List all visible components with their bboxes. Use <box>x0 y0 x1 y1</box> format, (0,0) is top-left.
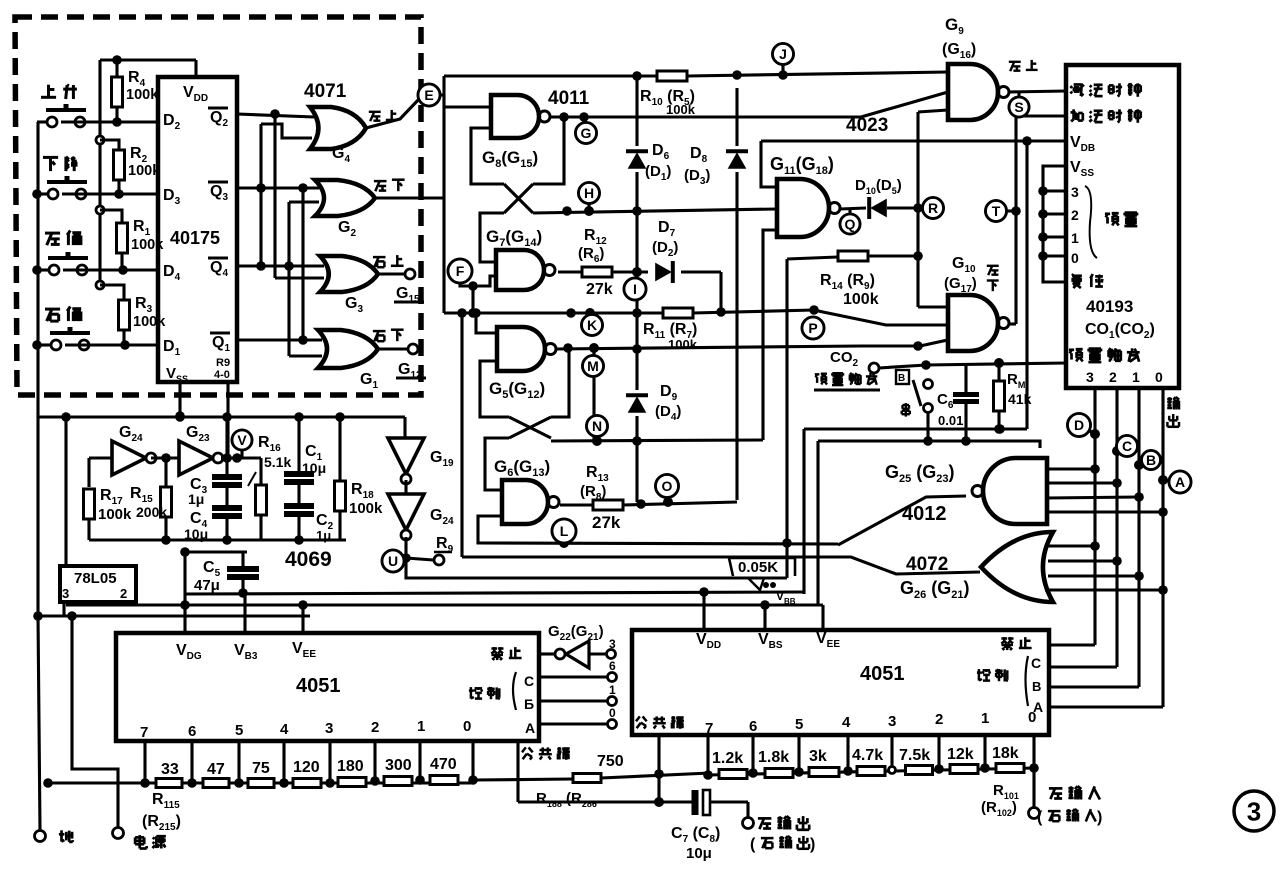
wire G26 in1 <box>1045 541 1100 551</box>
pin1 stub <box>415 741 425 785</box>
terminal 地 <box>35 830 73 842</box>
svg-text:4071: 4071 <box>304 81 347 102</box>
wire 左偏 to D4 <box>32 265 158 275</box>
resistor R13 27k <box>580 464 623 532</box>
wire G26 in2 <box>1048 556 1122 566</box>
wire L row <box>478 538 838 548</box>
wire K from E vertical <box>444 311 462 314</box>
wire D7 to R11 <box>681 272 726 317</box>
bus D <box>1090 389 1100 645</box>
cross wire c <box>289 202 322 356</box>
40193 labels <box>1069 83 1163 385</box>
or-gate G2 <box>315 180 375 239</box>
svg-text:L: L <box>560 523 569 539</box>
svg-text:3: 3 <box>888 713 896 730</box>
left rail to ground <box>38 616 40 830</box>
pin0L stub <box>468 741 478 785</box>
capacitor C2 1u <box>284 485 334 543</box>
wire 下降 to D3 <box>32 189 158 199</box>
svg-text:4051: 4051 <box>860 663 905 685</box>
svg-text:100k: 100k <box>349 500 383 517</box>
node letter overlays <box>232 44 1191 573</box>
nand G8 <box>482 95 550 170</box>
wire G9 out <box>1009 60 1066 92</box>
wire G2 out 左下 <box>374 180 443 198</box>
nand G10 <box>944 255 1009 351</box>
resistor 1.8k <box>758 749 793 778</box>
wire Q2 out <box>237 109 314 119</box>
wire G7 out <box>558 270 583 273</box>
inverter G24b <box>388 494 454 540</box>
resistor R16 5.1k <box>248 434 291 540</box>
middle-left vertical <box>457 308 467 557</box>
switch 右偏 <box>45 307 90 351</box>
pin5R stub <box>794 735 804 777</box>
terminal R9 <box>406 535 454 565</box>
svg-text:U: U <box>388 553 398 569</box>
node Q <box>840 209 860 234</box>
wire G24a in <box>89 458 112 487</box>
svg-text:G: G <box>581 125 592 141</box>
chain wire right <box>708 768 1034 775</box>
rail B drop <box>816 441 819 605</box>
pin6 stub <box>187 741 197 788</box>
pin5 stub <box>234 741 244 788</box>
svg-text:41k: 41k <box>1008 391 1032 407</box>
svg-text:3: 3 <box>325 720 333 737</box>
wire 78L05 in <box>64 417 67 566</box>
svg-text:27k: 27k <box>586 281 613 298</box>
middle box bottom <box>462 555 837 558</box>
4051R control <box>977 655 1163 715</box>
svg-text:120: 120 <box>293 759 320 776</box>
wire G26 in4 <box>1045 585 1168 595</box>
wire CO2 row to 40193 <box>926 358 1066 368</box>
label 4023 <box>846 115 888 136</box>
4051R common pin <box>654 735 664 807</box>
bus C <box>1112 389 1122 667</box>
node G <box>576 117 597 144</box>
svg-text:0.05K: 0.05K <box>738 559 778 576</box>
pin7 stub <box>140 741 150 788</box>
svg-text:100k: 100k <box>126 87 159 103</box>
bus A <box>1158 389 1168 707</box>
label R188 <box>536 790 597 809</box>
svg-text:): ) <box>810 836 815 853</box>
capacitor C6 0.01 <box>937 364 979 446</box>
svg-text:3k: 3k <box>809 748 827 765</box>
resistor R4 100k <box>112 60 160 122</box>
diode D9 line lower <box>635 416 638 502</box>
vdd feed vertical <box>96 60 104 289</box>
pin7R stub <box>703 735 713 780</box>
pin3 stub <box>325 741 335 788</box>
svg-text:47: 47 <box>207 761 225 778</box>
svg-text:B: B <box>1146 452 1156 468</box>
diode D9 <box>626 383 681 423</box>
latch1 loop <box>471 117 564 262</box>
capacitor C5 47u <box>180 547 259 594</box>
svg-text:1: 1 <box>417 718 425 735</box>
wire R14 left <box>787 257 838 578</box>
rail A2 y592 <box>185 587 804 598</box>
svg-text:1μ: 1μ <box>188 491 204 507</box>
switch 下降 <box>43 157 87 199</box>
svg-text:T: T <box>992 203 1001 219</box>
svg-text:R9: R9 <box>216 357 230 369</box>
node D <box>1068 414 1096 437</box>
pin3R stub <box>889 735 896 774</box>
svg-text:300: 300 <box>385 757 412 774</box>
wire G23 out <box>221 453 261 463</box>
wire K to P <box>693 305 819 315</box>
wire G5 in1 <box>471 308 497 333</box>
wire common out <box>518 800 695 803</box>
svg-text:3: 3 <box>1071 184 1079 200</box>
svg-text:4023: 4023 <box>846 115 888 136</box>
svg-text:1: 1 <box>609 683 616 697</box>
pot 0.05K <box>729 558 795 590</box>
wire G24a-G23 <box>151 453 179 463</box>
node M <box>583 353 604 377</box>
wire G6 out <box>560 503 594 506</box>
inverter G24a <box>112 424 156 475</box>
wire K row <box>462 308 663 318</box>
IC U1 40175 box <box>158 77 237 382</box>
pin0R stub <box>1029 735 1039 773</box>
pin4 stub <box>279 741 289 788</box>
rail B2 y605 <box>66 600 823 610</box>
svg-text:6: 6 <box>749 718 757 735</box>
4051R labels <box>636 630 1036 737</box>
svg-text:Б: Б <box>524 696 534 712</box>
capacitor C4 10u <box>184 488 242 542</box>
svg-text:7: 7 <box>140 724 148 741</box>
wire G9G10 vertical <box>913 110 948 307</box>
svg-text:1: 1 <box>1071 230 1079 246</box>
svg-text:3: 3 <box>1247 796 1261 826</box>
40193 vdd wire <box>1027 141 1066 429</box>
4051L labels <box>140 640 570 760</box>
bus B <box>1134 389 1144 687</box>
svg-text:0: 0 <box>1155 369 1163 385</box>
resistor R10 100k <box>640 71 696 117</box>
svg-text:E: E <box>424 87 433 103</box>
wire VDD row <box>761 136 1066 146</box>
node I <box>624 278 646 300</box>
svg-text:7: 7 <box>705 720 713 737</box>
svg-text:H: H <box>584 185 594 201</box>
svg-text:470: 470 <box>430 756 457 773</box>
wire G10 out to 加法时钟 <box>1009 116 1066 324</box>
node L <box>552 519 576 548</box>
inverter G22 <box>548 623 616 668</box>
svg-text:6: 6 <box>609 659 616 673</box>
oscillator bottom wire <box>89 524 346 545</box>
pin4R stub <box>843 735 853 776</box>
4051L supply stubs <box>185 552 303 633</box>
svg-text:4: 4 <box>842 714 851 731</box>
4051R supply stubs <box>704 592 823 630</box>
node R <box>923 198 944 219</box>
svg-text:100k: 100k <box>133 314 166 330</box>
svg-text:33: 33 <box>161 761 179 778</box>
wire Q1 out <box>237 335 322 345</box>
4051L common pin <box>516 741 519 802</box>
wire 右偏 to D1 <box>32 340 158 350</box>
svg-text:0: 0 <box>1071 250 1079 266</box>
node C <box>1117 436 1138 457</box>
svg-text:C: C <box>1122 438 1132 454</box>
nand G9 <box>942 15 1009 120</box>
svg-text:2: 2 <box>1109 369 1117 385</box>
node J <box>773 44 794 80</box>
resistor 300 <box>384 757 412 786</box>
svg-text:40175: 40175 <box>170 228 220 248</box>
wire R14 right <box>868 254 918 257</box>
resistor 1.2k <box>712 750 747 779</box>
resistor R1 100k <box>100 210 164 270</box>
resistor R2 100k <box>100 140 161 194</box>
inverter G19 <box>388 438 454 484</box>
wire G25 in1 <box>1047 464 1100 474</box>
svg-text:4069: 4069 <box>285 548 332 571</box>
wire P diagonal <box>814 310 948 325</box>
resistor R14 100k <box>820 251 879 308</box>
rail A drop <box>802 429 805 594</box>
terminal 电源 <box>72 616 166 849</box>
diode D6 <box>626 142 671 183</box>
40175 labels <box>163 84 230 384</box>
pin2R stub <box>934 735 944 774</box>
svg-text:3: 3 <box>1086 369 1094 385</box>
resistor R3 100k <box>100 285 166 345</box>
node N <box>587 416 608 447</box>
wire N row <box>551 348 763 446</box>
wire 750 right <box>601 773 710 778</box>
nand G5 <box>489 327 556 401</box>
svg-text:N: N <box>592 418 602 434</box>
preset trigger switch <box>902 380 933 417</box>
node H <box>579 183 600 217</box>
svg-text:5.1k: 5.1k <box>264 454 291 470</box>
label VBB small <box>776 589 796 606</box>
4051L control pins <box>469 659 617 736</box>
svg-text:100k: 100k <box>98 506 132 523</box>
wire 78L05 pin2 <box>120 602 122 616</box>
wire G3 out 右上 <box>373 255 424 305</box>
wire VDD top <box>100 55 196 77</box>
latch2 loop <box>480 348 569 490</box>
svg-text:K: K <box>587 317 597 333</box>
svg-text:10μ: 10μ <box>686 845 712 862</box>
svg-text:2: 2 <box>371 719 379 736</box>
node O <box>656 475 679 503</box>
svg-text:4-0: 4-0 <box>214 369 230 381</box>
svg-text:1.8k: 1.8k <box>758 749 789 766</box>
label 4071 <box>304 81 347 102</box>
40193 vss-preset wires <box>1038 166 1066 282</box>
wire G6 in2 loop <box>478 516 502 543</box>
rail U right end <box>0 0 1 1</box>
wire F-K link <box>468 286 478 318</box>
svg-text:S: S <box>1014 99 1023 115</box>
diode D6 line upper <box>635 76 638 146</box>
resistor 3k <box>809 748 839 777</box>
label R115 <box>142 791 181 833</box>
resistor 750 <box>573 753 624 783</box>
wire R12 to D7 <box>612 267 648 277</box>
nand G6 <box>494 457 559 524</box>
wire G26 out <box>837 557 980 574</box>
resistor 180 <box>337 758 366 787</box>
resistor 7.5k <box>899 747 933 775</box>
svg-text:): ) <box>1097 809 1102 826</box>
wire Q4 out <box>237 261 324 271</box>
svg-text:O: O <box>662 478 673 494</box>
page number 3 <box>1234 791 1274 831</box>
resistor R19 41k <box>994 363 1032 434</box>
40175 bottom pins <box>175 382 228 458</box>
wire G19-G24 <box>404 480 407 494</box>
diode D7 <box>652 219 678 283</box>
wire Q3 out <box>237 183 319 193</box>
or-gate G4 <box>310 107 366 165</box>
svg-text:7.5k: 7.5k <box>899 747 930 764</box>
label 左输出 <box>750 816 815 853</box>
node K <box>582 315 603 336</box>
wire R13 out O row <box>623 497 737 509</box>
rail top left <box>37 412 405 422</box>
resistor 33 <box>156 761 182 788</box>
svg-text:5: 5 <box>235 722 243 739</box>
wire N to G11 <box>763 230 777 440</box>
wire G4 out 左上 <box>366 98 420 128</box>
svg-text:1: 1 <box>981 710 989 727</box>
svg-text:A: A <box>525 720 535 736</box>
resistor R15 200k <box>130 458 172 540</box>
svg-text:4.7k: 4.7k <box>852 747 883 764</box>
wire G5 out M <box>556 343 861 353</box>
svg-text:3: 3 <box>609 637 616 651</box>
node V <box>232 430 252 458</box>
wire 78L05 pin3 <box>62 602 65 616</box>
svg-text:40193: 40193 <box>1086 297 1133 316</box>
svg-text:3: 3 <box>62 586 69 601</box>
node E <box>418 84 440 106</box>
svg-text:200k: 200k <box>136 504 167 520</box>
svg-text:4011: 4011 <box>548 88 590 109</box>
node U <box>382 550 404 572</box>
node F <box>448 259 472 283</box>
svg-text:2: 2 <box>1071 207 1079 223</box>
capacitor C3 1u <box>188 417 242 507</box>
svg-text:P: P <box>808 320 817 336</box>
resistor R11 100k <box>643 308 698 352</box>
resistor 47 <box>203 761 229 788</box>
wire E vertical <box>440 76 444 313</box>
svg-text:1.2k: 1.2k <box>712 750 743 767</box>
or G26 (4072) <box>900 532 1053 602</box>
svg-text:4051: 4051 <box>296 675 341 697</box>
svg-text:2: 2 <box>120 586 127 601</box>
resistor 12k <box>947 746 978 774</box>
resistor R17 100k <box>84 487 133 540</box>
svg-text:(: ( <box>1037 809 1043 826</box>
wire G9 in3 <box>861 92 948 117</box>
pin6R stub <box>748 735 758 778</box>
label 预置触发 <box>814 370 909 390</box>
svg-text:18k: 18k <box>992 745 1019 762</box>
inverter G23 <box>179 424 223 475</box>
wire F to G7 <box>460 276 496 291</box>
resistor R18 100k <box>335 417 384 540</box>
cross wire d <box>301 188 304 340</box>
wire D10 to R <box>887 203 923 213</box>
or-gate G3 <box>320 256 378 315</box>
svg-text:750: 750 <box>597 753 624 770</box>
svg-text:10μ: 10μ <box>302 460 326 476</box>
label 输出 vertical <box>1167 397 1179 427</box>
wire G25 out <box>838 496 966 545</box>
IC U2 40193 box <box>1066 65 1179 388</box>
svg-text:47μ: 47μ <box>194 577 220 594</box>
wire to G19 <box>403 417 406 438</box>
nand G7 <box>486 227 555 290</box>
svg-text:Q: Q <box>845 216 856 232</box>
wire J to G9 <box>687 70 948 80</box>
svg-text:M: M <box>587 358 599 374</box>
node T <box>986 201 1021 222</box>
diode D8 line <box>735 88 738 500</box>
svg-text:I: I <box>633 281 637 297</box>
svg-text:R: R <box>928 200 938 216</box>
svg-text:100k: 100k <box>666 102 696 117</box>
IC 4051 right box <box>632 630 1049 735</box>
node B <box>1139 451 1161 470</box>
pin2 stub <box>370 741 380 786</box>
wire G26 in3 <box>1048 571 1144 581</box>
resistor 120 <box>293 759 321 788</box>
svg-text:D: D <box>1074 417 1084 433</box>
dashed enclosure box <box>15 17 421 395</box>
terminal 左输入 <box>1029 768 1103 826</box>
or-gate G1 <box>318 330 378 391</box>
svg-text:A: A <box>1175 474 1185 490</box>
svg-text:180: 180 <box>337 758 364 775</box>
capacitor C1 10u <box>284 417 326 482</box>
wire G25 in3 <box>1047 492 1144 502</box>
cross wire a <box>261 124 312 266</box>
wire G11 in1 loop <box>761 141 777 187</box>
resistor 4.7k <box>852 747 885 776</box>
svg-text:A: A <box>1033 699 1043 715</box>
wire G10 in bottom <box>861 340 948 351</box>
label 4011 <box>548 88 590 109</box>
svg-text:4: 4 <box>280 721 289 738</box>
svg-text:C: C <box>1031 655 1041 671</box>
node A <box>1163 471 1191 493</box>
capacitor C7 10u <box>671 790 754 862</box>
svg-text:100k: 100k <box>668 337 698 352</box>
rail VSS <box>818 441 1040 448</box>
wire G1 out 右下 <box>373 330 426 381</box>
wire J top <box>444 71 657 81</box>
svg-text:6: 6 <box>188 723 196 740</box>
pin1R stub <box>980 735 990 773</box>
svg-text:0.01: 0.01 <box>938 413 963 428</box>
wire U <box>401 537 411 563</box>
